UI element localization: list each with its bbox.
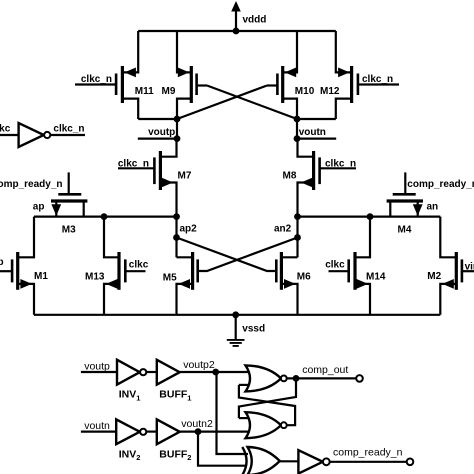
svg-text:comp_ready_n: comp_ready_n bbox=[407, 179, 474, 190]
node voutp bbox=[174, 116, 181, 123]
node comp_out junction bbox=[293, 375, 300, 382]
svg-text:M2: M2 bbox=[427, 271, 441, 282]
svg-text:clkc: clkc bbox=[325, 259, 345, 270]
node voutp stub junction bbox=[174, 135, 181, 142]
wire NOR1 lower input bbox=[239, 384, 249, 386]
svg-text:M7: M7 bbox=[178, 170, 192, 181]
svg-text:comp_out: comp_out bbox=[302, 364, 348, 376]
wire cross-couple ap2 to M6 gate bbox=[177, 238, 277, 272]
terminal comp_out bbox=[356, 375, 363, 382]
wire cross-couple M10 gate to voutp bbox=[177, 86, 267, 120]
transistor M9 bbox=[177, 31, 207, 119]
svg-text:vddd: vddd bbox=[243, 14, 267, 25]
inverter INV1 bbox=[117, 360, 146, 385]
wire XOR1 output bbox=[280, 460, 299, 462]
transistor M8 bbox=[298, 139, 357, 217]
wire voutn drop bbox=[296, 119, 298, 139]
svg-text:M4: M4 bbox=[398, 225, 412, 236]
wire cross-couple an2 to M5 gate bbox=[198, 238, 298, 272]
svg-text:ap: ap bbox=[33, 201, 45, 212]
svg-text:M14: M14 bbox=[366, 271, 386, 282]
node an2 bbox=[294, 234, 301, 241]
svg-text:voutn: voutn bbox=[84, 420, 110, 432]
svg-text:voutp2: voutp2 bbox=[183, 359, 215, 371]
node voutp2 bbox=[212, 369, 219, 376]
buffer BUFF2 bbox=[157, 419, 180, 444]
node M13 drain junction bbox=[101, 213, 108, 220]
xor gate XOR1 bbox=[242, 447, 279, 474]
transistor M3 bbox=[51, 172, 87, 216]
node vssd junction bbox=[232, 311, 239, 318]
svg-text:clkc_n: clkc_n bbox=[81, 74, 112, 85]
wire cross-couple M9 gate to voutn bbox=[207, 86, 297, 120]
wire vssd rail bbox=[34, 314, 440, 316]
wire voutp logic input bbox=[81, 371, 117, 373]
transistor M12 bbox=[336, 31, 399, 119]
wire voutp drop bbox=[176, 119, 178, 139]
transistor M10 bbox=[267, 31, 297, 119]
svg-text:an: an bbox=[427, 201, 439, 212]
wire NOR2 upper input bbox=[239, 417, 249, 419]
wire voutp2 to xor bbox=[217, 372, 249, 454]
svg-text:voutn: voutn bbox=[299, 127, 326, 138]
transistor M11 bbox=[75, 31, 138, 119]
svg-text:clkc_n: clkc_n bbox=[53, 124, 84, 135]
svg-text:comp_ready_n: comp_ready_n bbox=[333, 447, 403, 459]
transistor M7 bbox=[118, 139, 177, 217]
node M14 drain junction bbox=[367, 213, 374, 220]
transistor M13 bbox=[104, 217, 146, 315]
inverter clkc (top-left) bbox=[0, 123, 85, 147]
svg-text:clkc: clkc bbox=[0, 124, 11, 135]
wire voutp stub bbox=[138, 138, 177, 140]
wire voutn stub bbox=[297, 138, 336, 140]
wire latch feedback NOR1-out to NOR2-in bbox=[239, 378, 296, 418]
wire voutp2 bbox=[180, 371, 251, 373]
svg-text:ap2: ap2 bbox=[180, 224, 198, 235]
node voutn bbox=[294, 116, 301, 123]
wire voutp drain link bbox=[138, 118, 177, 120]
wire INV1 to BUFF1 bbox=[147, 371, 157, 373]
transistor M14 bbox=[329, 217, 371, 315]
svg-text:M5: M5 bbox=[163, 272, 177, 283]
svg-text:BUFF1: BUFF1 bbox=[159, 389, 191, 403]
node voutn2 bbox=[195, 428, 202, 435]
node ap2 bbox=[173, 234, 180, 241]
svg-text:voutp: voutp bbox=[84, 360, 110, 372]
power vddd symbol bbox=[231, 1, 241, 31]
svg-text:clkc_n: clkc_n bbox=[118, 158, 149, 169]
nor gate NOR2 bbox=[246, 412, 287, 438]
wire comp_ready_n output bbox=[330, 461, 407, 463]
svg-text:M9: M9 bbox=[162, 86, 176, 97]
wire voutn logic input bbox=[81, 431, 116, 433]
svg-text:M11: M11 bbox=[135, 86, 154, 97]
svg-text:M8: M8 bbox=[283, 170, 297, 181]
node vddd junction bbox=[233, 28, 240, 35]
svg-text:M3: M3 bbox=[62, 225, 76, 236]
transistor M1 bbox=[0, 217, 34, 315]
nor gate NOR1 bbox=[246, 365, 287, 391]
transistor M6 bbox=[276, 252, 297, 315]
terminal comp_ready_n bbox=[407, 459, 414, 466]
wire an2 column bbox=[296, 217, 298, 258]
svg-text:M1: M1 bbox=[34, 271, 48, 282]
inverter INV2 bbox=[116, 419, 146, 444]
inverter INV3 bbox=[298, 450, 329, 473]
svg-text:M10: M10 bbox=[295, 86, 315, 97]
wire INV2 to BUFF2 bbox=[147, 431, 157, 433]
svg-text:an2: an2 bbox=[274, 224, 292, 235]
wire ap2 column bbox=[175, 217, 177, 258]
wire ap row horizontal bbox=[34, 216, 177, 218]
svg-text:voutn2: voutn2 bbox=[181, 418, 213, 430]
buffer BUFF1 bbox=[157, 360, 180, 385]
svg-text:vinn: vinn bbox=[465, 261, 474, 272]
svg-text:BUFF2: BUFF2 bbox=[159, 448, 191, 462]
wire voutn2 bbox=[180, 431, 252, 433]
svg-text:comp_ready_n: comp_ready_n bbox=[0, 179, 63, 190]
svg-text:vinp: vinp bbox=[0, 257, 4, 268]
wire vddd rail bbox=[138, 30, 336, 32]
svg-text:clkc_n: clkc_n bbox=[325, 158, 356, 169]
svg-text:M6: M6 bbox=[297, 272, 311, 283]
wire voutn drain link bbox=[297, 118, 336, 120]
wire voutn2 to xor bbox=[198, 432, 246, 466]
svg-text:M12: M12 bbox=[320, 86, 340, 97]
transistor M4 bbox=[387, 172, 423, 216]
transistor M5 bbox=[177, 252, 198, 315]
node voutn stub junction bbox=[294, 135, 301, 142]
svg-text:clkc_n: clkc_n bbox=[362, 74, 393, 85]
node an2 column junction bbox=[294, 213, 301, 220]
svg-text:vssd: vssd bbox=[242, 323, 265, 334]
wire an row horizontal bbox=[298, 216, 441, 218]
wire latch feedback NOR2-out to NOR1-in bbox=[239, 385, 295, 425]
svg-text:M13: M13 bbox=[85, 271, 105, 282]
node ap2 column junction bbox=[173, 213, 180, 220]
svg-text:voutp: voutp bbox=[148, 127, 175, 138]
ground vssd symbol bbox=[227, 315, 245, 346]
svg-text:clkc: clkc bbox=[129, 259, 149, 270]
transistor M2 bbox=[440, 217, 474, 315]
wire comp_out bbox=[287, 377, 357, 379]
